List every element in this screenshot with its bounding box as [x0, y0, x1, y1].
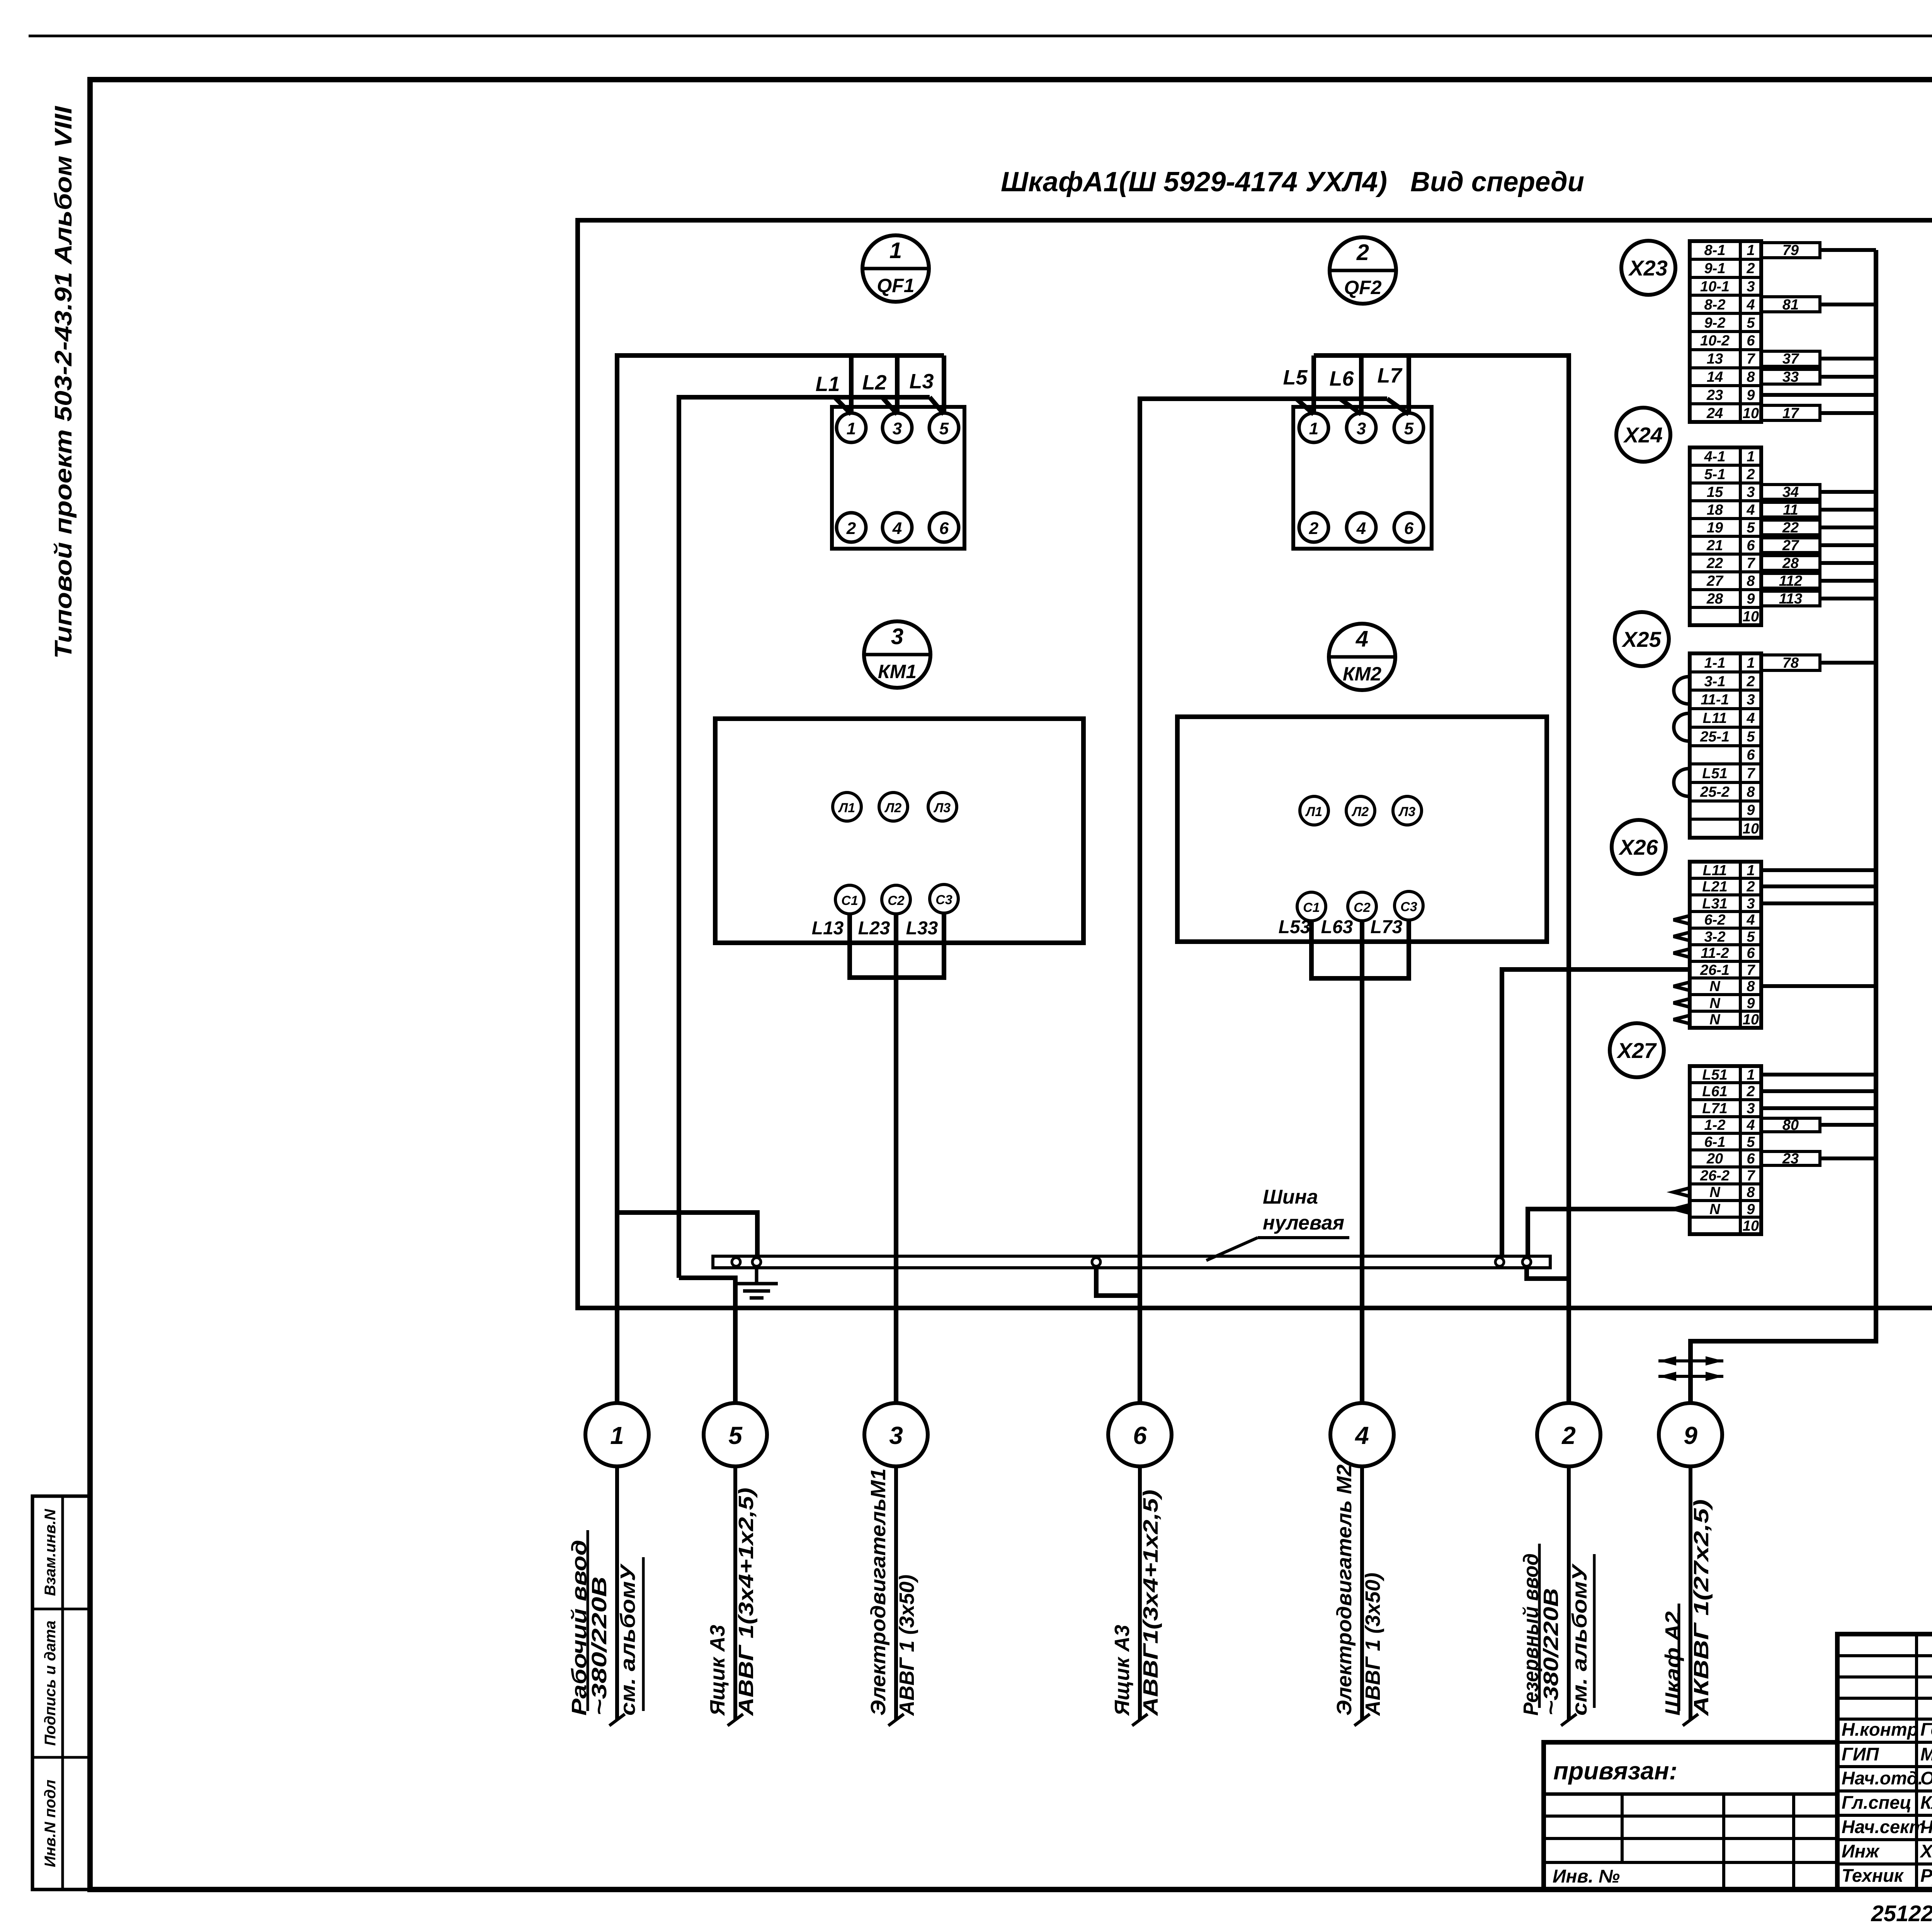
- X24 pin 2 net 5-1: [1704, 466, 1755, 483]
- QF2 pin 2: [1299, 513, 1328, 542]
- svg-text:L71: L71: [1702, 1100, 1727, 1117]
- svg-text:4: 4: [1746, 710, 1755, 726]
- node L2: [862, 371, 886, 394]
- svg-text:1: 1: [1309, 419, 1318, 438]
- svg-text:5: 5: [728, 1422, 743, 1449]
- svg-text:10: 10: [1743, 1218, 1759, 1234]
- X26 cable lug rows 6-6: [1673, 949, 1690, 957]
- node L23: [858, 918, 890, 939]
- svg-text:С2: С2: [1354, 900, 1371, 915]
- X24 wire tag 113: [1761, 591, 1820, 607]
- svg-text:3: 3: [1747, 896, 1755, 912]
- svg-text:L2: L2: [862, 371, 886, 394]
- X25 cable lug rows 2-3: [1674, 677, 1690, 704]
- svg-text:АКВВГ 1(27х2,5): АКВВГ 1(27х2,5): [1690, 1499, 1713, 1717]
- QF2 pin 1: [1299, 413, 1328, 442]
- terminal block X27 body: [1690, 1066, 1761, 1234]
- X24 pin 9 net 28: [1706, 591, 1755, 607]
- svg-text:113: 113: [1779, 591, 1803, 607]
- svg-text:Н.контр: Н.контр: [1842, 1719, 1918, 1740]
- X27 pin 1 net L51: [1702, 1067, 1755, 1083]
- svg-text:КМ2: КМ2: [1343, 663, 1381, 685]
- cable circle 5: [704, 1403, 767, 1466]
- svg-text:3: 3: [889, 1422, 903, 1449]
- svg-text:8-2: 8-2: [1704, 297, 1726, 313]
- X27 wire tag 23: [1761, 1151, 1820, 1167]
- X24 wire tag 22: [1761, 520, 1820, 536]
- svg-text:10-1: 10-1: [1700, 279, 1730, 295]
- svg-text:9: 9: [1747, 387, 1755, 403]
- svg-text:4-1: 4-1: [1704, 449, 1726, 465]
- QF1 pin 1: [837, 413, 866, 442]
- X23 pin 2 net 9-1: [1704, 260, 1755, 277]
- signature row Нач.отд. Осовский: [1842, 1768, 1932, 1788]
- X27 pin 8 net N: [1709, 1184, 1755, 1201]
- wire X23 pin 7 to harness: [1820, 357, 1876, 361]
- order number 25122-08: [1871, 1901, 1932, 1926]
- svg-text:4: 4: [1354, 1422, 1369, 1449]
- KM1 pin С1: [835, 885, 864, 914]
- wire X26 pin 3 to harness: [1761, 901, 1876, 905]
- svg-text:L51: L51: [1702, 765, 1727, 782]
- svg-text:L31: L31: [1702, 896, 1727, 912]
- X26 cable lug rows 5-5: [1673, 932, 1690, 941]
- KM1 pin С2: [882, 885, 910, 914]
- neutral bus bar (шина нулевая): [713, 1256, 1550, 1268]
- wire: tap to box A3 (cable 5) from QF1 terminals: [679, 397, 944, 1278]
- svg-text:Л3: Л3: [933, 801, 951, 815]
- X26 pin 3 net L31: [1702, 896, 1755, 912]
- svg-text:~380/220В: ~380/220В: [1539, 1588, 1563, 1716]
- bus bolt hole at 2837: [1092, 1258, 1100, 1266]
- svg-text:4: 4: [1355, 626, 1368, 651]
- node L1: [815, 372, 840, 396]
- svg-text:Л1: Л1: [838, 801, 855, 815]
- svg-text:L6: L6: [1329, 367, 1354, 390]
- cable 1 label: [568, 1530, 643, 1716]
- signature row ГИП Меленчук: [1842, 1744, 1932, 1764]
- cable circle 2: [1537, 1403, 1600, 1466]
- svg-text:21: 21: [1706, 537, 1723, 554]
- X27 wire tag 80: [1761, 1117, 1820, 1133]
- wire X24 pin 8 to harness: [1820, 579, 1876, 583]
- svg-text:25-1: 25-1: [1700, 729, 1730, 745]
- svg-text:Вид спереди: Вид спереди: [1410, 167, 1584, 197]
- cable circle 9: [1659, 1403, 1722, 1466]
- svg-text:6-1: 6-1: [1704, 1134, 1726, 1150]
- svg-text:7: 7: [1747, 1168, 1755, 1184]
- title block: signature table grid: [1837, 1634, 1932, 1889]
- cable 1 leader line: [609, 1466, 625, 1726]
- svg-text:L5: L5: [1283, 366, 1308, 389]
- QF1 pin 5: [929, 413, 959, 442]
- svg-text:78: 78: [1782, 655, 1799, 671]
- node L73: [1371, 917, 1403, 937]
- X25 pin 7 net L51: [1702, 765, 1755, 782]
- X26 cable lug rows 4-4: [1673, 916, 1690, 924]
- svg-text:Гецко: Гецко: [1920, 1719, 1932, 1740]
- svg-text:81: 81: [1782, 297, 1799, 313]
- breaker QF2 body: [1293, 407, 1432, 549]
- svg-text:1: 1: [1747, 655, 1755, 671]
- svg-text:3: 3: [1747, 484, 1755, 500]
- svg-text:X24: X24: [1623, 423, 1663, 447]
- X25 pin 9: [1747, 802, 1755, 818]
- X25 cable lug rows 7-8: [1674, 769, 1690, 796]
- svg-text:1: 1: [1747, 242, 1755, 259]
- X23 pin 1 net 8-1: [1704, 242, 1755, 259]
- X23 wire tag 81: [1761, 297, 1820, 313]
- X23 wire tag 37: [1761, 351, 1820, 367]
- svg-text:9-1: 9-1: [1704, 260, 1726, 277]
- svg-text:1: 1: [847, 419, 856, 438]
- cable circle 1: [585, 1403, 649, 1466]
- svg-text:см. альбомУ: см. альбомУ: [1568, 1563, 1591, 1716]
- svg-text:6: 6: [1747, 747, 1755, 763]
- KM2 pin Л1: [1300, 796, 1328, 825]
- X26 pin 2 net L21: [1702, 879, 1755, 895]
- wire X25 pin 1 to harness: [1820, 661, 1876, 665]
- X24 pin 1 net 4-1: [1704, 449, 1755, 465]
- svg-text:~380/220В: ~380/220В: [588, 1577, 611, 1716]
- svg-text:2: 2: [1746, 673, 1755, 690]
- svg-text:L53: L53: [1279, 917, 1311, 937]
- svg-text:8: 8: [1747, 978, 1755, 995]
- cabinet A1 enclosure outline: [578, 220, 1932, 1308]
- wire harness collector down to cabinet A2 cable (circle 9): [1690, 250, 1876, 1403]
- svg-text:26-1: 26-1: [1700, 962, 1730, 978]
- svg-text:L33: L33: [906, 918, 938, 939]
- svg-text:N: N: [1709, 1184, 1721, 1201]
- cable 2 leader line: [1561, 1466, 1577, 1726]
- svg-text:3: 3: [1357, 419, 1366, 438]
- wire X24 pin 7 to harness: [1820, 561, 1876, 565]
- svg-text:2: 2: [1746, 1083, 1755, 1100]
- svg-text:Типовой проект 503-2-43.91: Типовой проект 503-2-43.91 Альбом VIII: [50, 105, 77, 659]
- QF1 pin 4: [883, 513, 912, 542]
- X23 pin 3 net 10-1: [1700, 279, 1755, 295]
- node L13: [812, 918, 844, 939]
- wire X27 pin 2 to harness: [1761, 1089, 1876, 1093]
- svg-text:QF2: QF2: [1344, 277, 1381, 298]
- wire X27 pin 6 to harness: [1820, 1156, 1876, 1160]
- svg-text:8: 8: [1747, 573, 1755, 589]
- svg-text:9-2: 9-2: [1704, 315, 1726, 331]
- svg-text:23: 23: [1706, 387, 1723, 403]
- wire X27 pin 3 to harness: [1761, 1106, 1876, 1110]
- drawing title: Шкаф А1 (Ш 5929-4174 УХЛ4) Вид спереди: [1001, 167, 1584, 197]
- X26 pin 1 net L11: [1703, 862, 1755, 879]
- svg-text:2: 2: [1746, 879, 1755, 895]
- svg-text:С2: С2: [888, 893, 905, 908]
- cable 4 leader line: [1354, 1466, 1370, 1726]
- breaker QF1 position circle (1/QF1): [862, 235, 929, 302]
- X24 wire tag 28: [1761, 555, 1820, 571]
- svg-text:1: 1: [1747, 862, 1755, 879]
- svg-text:QF1: QF1: [877, 275, 914, 296]
- wire X23 pin 8 to harness: [1820, 375, 1876, 379]
- wire X24 pin 5 to harness: [1820, 526, 1876, 529]
- svg-text:Л1: Л1: [1305, 804, 1322, 819]
- svg-text:112: 112: [1779, 573, 1803, 589]
- svg-text:24: 24: [1706, 405, 1723, 422]
- X26 pin 8 net N: [1709, 978, 1755, 995]
- svg-text:4: 4: [1746, 502, 1755, 518]
- wire X24 pin 9 to harness: [1820, 597, 1876, 600]
- contactor KM2 body: [1177, 717, 1547, 942]
- cable circle 3: [864, 1403, 928, 1466]
- svg-text:X23: X23: [1628, 256, 1668, 280]
- node L5: [1283, 366, 1308, 389]
- cable circle 6: [1108, 1403, 1172, 1466]
- X23 wire tag 17: [1761, 405, 1820, 422]
- svg-text:5: 5: [1747, 729, 1755, 745]
- svg-text:25122-08: 25122-08: [1871, 1901, 1932, 1926]
- svg-text:нулевая: нулевая: [1263, 1212, 1344, 1234]
- wire X26 pin 1 to harness: [1761, 868, 1876, 872]
- signature row Нач.сект Черепахина: [1842, 1816, 1932, 1837]
- svg-text:9: 9: [1747, 802, 1755, 818]
- cable 6 leader line: [1132, 1466, 1148, 1726]
- X27 pin 2 net L61: [1702, 1083, 1755, 1100]
- X27 cable lug rows 9-9: [1673, 1205, 1690, 1213]
- svg-text:Хашибашева: Хашибашева: [1919, 1841, 1932, 1861]
- bus bolt hole at 1958: [752, 1258, 761, 1266]
- KM1 pin С3: [930, 884, 958, 913]
- svg-text:L11: L11: [1703, 862, 1727, 879]
- svg-text:N: N: [1709, 978, 1721, 995]
- svg-text:8: 8: [1747, 784, 1755, 800]
- breaker QF2 position circle (2/QF2): [1330, 237, 1396, 304]
- X24 pin 3 net 15: [1707, 484, 1755, 500]
- wire: working input cable down to circle 1: [615, 1213, 619, 1403]
- svg-text:С3: С3: [935, 893, 952, 907]
- terminal block X24 position circle: [1616, 408, 1670, 462]
- svg-text:АВВГ 1(3х4+1х2,5): АВВГ 1(3х4+1х2,5): [735, 1488, 758, 1716]
- svg-text:Инв. №: Инв. №: [1553, 1866, 1620, 1887]
- X27 pin 3 net L71: [1702, 1100, 1755, 1117]
- svg-text:26-2: 26-2: [1700, 1168, 1730, 1184]
- svg-text:L51: L51: [1702, 1067, 1727, 1083]
- node L3: [909, 370, 934, 393]
- svg-text:7: 7: [1747, 765, 1755, 782]
- ground symbol on neutral bus: [735, 1268, 778, 1298]
- X24 pin 4 net 18: [1707, 502, 1755, 518]
- svg-text:L3: L3: [909, 370, 934, 393]
- svg-text:10: 10: [1743, 405, 1759, 422]
- svg-text:19: 19: [1707, 520, 1723, 536]
- X25 cable lug rows 4-5: [1674, 713, 1690, 741]
- svg-text:11-1: 11-1: [1701, 692, 1729, 708]
- X25 pin 4 net L11: [1703, 710, 1755, 726]
- svg-text:4: 4: [1746, 912, 1755, 928]
- X24 pin 10: [1743, 609, 1759, 625]
- node L33: [906, 918, 938, 939]
- svg-text:14: 14: [1707, 369, 1723, 385]
- svg-text:4: 4: [1746, 297, 1755, 313]
- QF1 pin 6: [929, 513, 959, 542]
- contactor KM2 position circle (4/КМ2): [1329, 624, 1395, 690]
- signature row Н.контр Гецко: [1842, 1719, 1932, 1740]
- cable 9 leader line: [1683, 1466, 1698, 1726]
- svg-text:L1: L1: [815, 372, 840, 396]
- svg-text:5-1: 5-1: [1704, 466, 1726, 483]
- cable 3 leader line: [888, 1466, 904, 1726]
- terminal block X24 body: [1690, 447, 1761, 625]
- wire X23 pin 10 to harness: [1820, 411, 1876, 415]
- X26 pin 10 net N: [1709, 1012, 1759, 1028]
- svg-text:7: 7: [1747, 351, 1755, 367]
- signature row Техник Рудченко: [1842, 1865, 1932, 1886]
- left margin stamp column (Инв.N подл / Подпись и дата / Взам.инв.N): [32, 1496, 91, 1889]
- X27 pin 7 net 26-2: [1700, 1168, 1755, 1184]
- svg-text:L13: L13: [812, 918, 844, 939]
- svg-text:3: 3: [1747, 279, 1755, 295]
- svg-text:Климов: Климов: [1920, 1792, 1932, 1813]
- svg-text:10: 10: [1743, 1012, 1759, 1028]
- svg-text:9: 9: [1747, 1201, 1755, 1218]
- svg-text:23: 23: [1782, 1151, 1799, 1167]
- svg-text:7: 7: [1747, 555, 1755, 571]
- wire: motor M2 cable bundle from KM2 С1 С2 С3: [1311, 920, 1409, 978]
- svg-text:С3: С3: [1400, 900, 1417, 914]
- wire X27 pin 1 to harness: [1761, 1073, 1876, 1077]
- svg-text:L63: L63: [1321, 917, 1353, 937]
- QF2 pin 5: [1394, 413, 1423, 442]
- terminal block X27 position circle: [1610, 1023, 1664, 1077]
- svg-text:33: 33: [1782, 369, 1799, 385]
- signature row Инж Хашибашева: [1842, 1841, 1932, 1861]
- KM2 pin С2: [1348, 892, 1376, 921]
- X26 pin 7 net 26-1: [1700, 962, 1755, 978]
- svg-text:22: 22: [1706, 555, 1723, 571]
- svg-text:6: 6: [1747, 945, 1755, 961]
- X23 pin 8 net 14: [1707, 369, 1755, 385]
- svg-text:37: 37: [1782, 351, 1799, 367]
- svg-text:X27: X27: [1616, 1038, 1657, 1063]
- svg-text:7: 7: [1747, 962, 1755, 978]
- cable 4 label: [1333, 1464, 1384, 1716]
- X24 pin 8 net 27: [1706, 573, 1755, 589]
- X26 pin 4 net 6-2: [1704, 912, 1755, 928]
- svg-text:8: 8: [1747, 1184, 1755, 1201]
- KM1 pin Л3: [928, 793, 957, 821]
- svg-text:Техник: Техник: [1842, 1865, 1904, 1886]
- title block: Привязан box: [1544, 1742, 1837, 1889]
- wire X24 pin 6 to harness: [1820, 543, 1876, 547]
- svg-text:6: 6: [1747, 537, 1755, 554]
- X26 cable lug rows 9-9: [1673, 999, 1690, 1007]
- wire X27 pin 4 to harness: [1820, 1123, 1876, 1127]
- svg-text:1-1: 1-1: [1704, 655, 1726, 671]
- wire X23 pin 4 to harness: [1820, 303, 1876, 306]
- svg-text:5: 5: [1404, 419, 1414, 438]
- X26 pin 5 net 3-2: [1704, 929, 1755, 945]
- terminal block X23 position circle: [1621, 241, 1675, 295]
- X26 cable lug rows 8-8: [1673, 982, 1690, 991]
- svg-text:L7: L7: [1377, 364, 1403, 387]
- svg-text:3-1: 3-1: [1704, 673, 1726, 690]
- contactor KM1 position circle (3/КМ1): [864, 621, 930, 688]
- svg-text:11: 11: [1783, 502, 1798, 518]
- svg-text:5: 5: [1747, 315, 1755, 331]
- QF1 pin 3: [883, 413, 912, 442]
- svg-text:ШкафА1(Ш 5929-4174 УХЛ4): ШкафА1(Ш 5929-4174 УХЛ4): [1001, 167, 1387, 197]
- svg-text:10-2: 10-2: [1700, 333, 1730, 349]
- svg-text:9: 9: [1684, 1422, 1697, 1449]
- svg-text:3: 3: [1747, 1100, 1755, 1117]
- svg-text:9: 9: [1747, 591, 1755, 607]
- X24 wire tag 112: [1761, 573, 1820, 589]
- X23 pin 7 net 13: [1707, 351, 1756, 367]
- bus bolt hole at 3881: [1495, 1258, 1504, 1266]
- svg-text:Шкаф А2: Шкаф А2: [1661, 1611, 1684, 1716]
- svg-text:ЭлектродвигательМ1: ЭлектродвигательМ1: [867, 1468, 890, 1716]
- svg-text:КМ1: КМ1: [878, 661, 917, 682]
- svg-text:N: N: [1709, 995, 1721, 1012]
- rotated project name: Типовой проект 503-2-43.91 Альбом VIII: [50, 105, 77, 659]
- KM2 pin Л3: [1393, 796, 1422, 825]
- signature row Гл.спец Климов: [1842, 1792, 1932, 1813]
- cable 6 label: [1111, 1490, 1162, 1716]
- wire X27 pin 9 (N) to neutral bus: [1528, 1209, 1690, 1256]
- svg-text:5: 5: [1747, 520, 1755, 536]
- svg-text:Гл.спец: Гл.спец: [1842, 1792, 1912, 1813]
- wire X23 pin 9 to harness: [1761, 393, 1876, 397]
- wire: reserve input cable to circle 2 with bus tap: [1527, 1268, 1569, 1403]
- X26 pin 9 net N: [1709, 995, 1755, 1012]
- svg-text:Ящик А3: Ящик А3: [1111, 1625, 1134, 1716]
- wire: reserve input shelf to QF2 terminals L5 L6 L7: [1314, 355, 1569, 1279]
- terminal block X25 body: [1690, 653, 1761, 838]
- svg-text:L23: L23: [858, 918, 890, 939]
- svg-text:3: 3: [893, 419, 902, 438]
- node L53: [1279, 917, 1311, 937]
- svg-text:2: 2: [1746, 260, 1755, 277]
- svg-text:Шина: Шина: [1263, 1186, 1318, 1208]
- svg-text:Ящик А3: Ящик А3: [706, 1625, 729, 1716]
- X23 pin 9 net 23: [1706, 387, 1755, 403]
- cable 3 label: [867, 1468, 918, 1716]
- svg-text:13: 13: [1707, 351, 1723, 367]
- svg-text:см. альбомУ: см. альбомУ: [616, 1563, 639, 1716]
- X23 wire tag 79: [1761, 242, 1820, 259]
- svg-text:Меленчук: Меленчук: [1920, 1744, 1932, 1764]
- X25 pin 8 net 25-2: [1700, 784, 1755, 800]
- svg-text:L61: L61: [1702, 1083, 1727, 1100]
- svg-text:4: 4: [892, 519, 902, 538]
- svg-text:Черепахина: Черепахина: [1920, 1816, 1932, 1837]
- X26 pin 6 net 11-2: [1701, 945, 1755, 961]
- svg-text:АВВГ1(3х4+1х2,5): АВВГ1(3х4+1х2,5): [1139, 1490, 1162, 1716]
- svg-text:8-1: 8-1: [1704, 242, 1726, 259]
- X23 wire tag 33: [1761, 369, 1820, 385]
- svg-text:18: 18: [1707, 502, 1723, 518]
- svg-text:N: N: [1709, 1201, 1721, 1218]
- contactor KM1 body: [715, 719, 1083, 943]
- svg-text:ГИП: ГИП: [1842, 1744, 1879, 1764]
- X25 wire tag 78: [1761, 655, 1820, 671]
- X24 wire tag 11: [1761, 502, 1820, 518]
- wire: tap to box A3 (cable 6) from QF2 terminals: [1140, 399, 1409, 1296]
- QF1 pin 2: [837, 513, 866, 542]
- svg-text:1: 1: [610, 1422, 624, 1449]
- svg-text:2: 2: [1356, 240, 1369, 265]
- svg-text:5: 5: [1747, 1134, 1755, 1150]
- wire X24 pin 4 to harness: [1820, 508, 1876, 512]
- X24 pin 6 net 21: [1706, 537, 1755, 554]
- svg-text:10: 10: [1743, 821, 1759, 837]
